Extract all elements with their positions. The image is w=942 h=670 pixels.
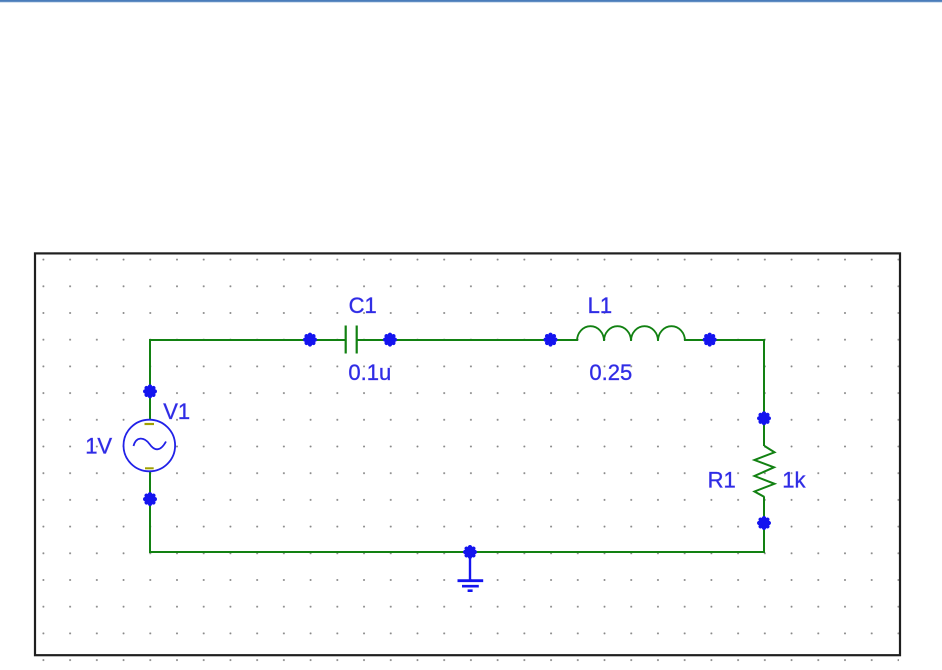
svg-text:L1: L1 <box>588 293 612 318</box>
wire top from V1 node to C1 left plate <box>150 339 346 341</box>
V1 plus terminal mark <box>145 423 155 425</box>
node R1 bottom <box>757 516 771 530</box>
wire right below R1 <box>763 497 765 553</box>
wire left vertical V1 bottom down to bottom rail <box>149 471 151 553</box>
inductor L1 coil <box>577 326 685 341</box>
svg-text:1V: 1V <box>85 434 112 459</box>
V1 sine symbol <box>134 439 167 450</box>
node ground junction <box>463 545 477 559</box>
wire left vertical V1 top <box>149 339 151 429</box>
voltage source V1 circle <box>124 420 176 472</box>
page top blue rule <box>0 0 942 3</box>
node L1 left <box>544 333 558 347</box>
node C1 left <box>303 333 317 347</box>
wire from L1 right end to top-right corner and down to R1 <box>685 340 764 446</box>
svg-text:0.1u: 0.1u <box>348 360 391 385</box>
grid dots <box>37 255 899 663</box>
node R1 top <box>757 411 771 425</box>
node C1 right <box>383 333 397 347</box>
wire bottom rail <box>149 551 765 553</box>
svg-text:0.25: 0.25 <box>589 360 632 385</box>
node L1 right <box>703 333 717 347</box>
svg-text:1k: 1k <box>782 467 806 492</box>
resistor R1 zigzag <box>755 446 775 497</box>
svg-text:V1: V1 <box>163 399 190 424</box>
node V1 bottom <box>143 492 157 506</box>
schematic frame border <box>35 253 900 655</box>
V1 minus terminal mark <box>145 467 154 469</box>
svg-text:C1: C1 <box>349 293 377 318</box>
wire from C1 right plate to L1 left end <box>357 339 577 341</box>
ground symbol <box>458 552 484 591</box>
capacitor C1 plates <box>346 326 357 354</box>
node V1 top <box>143 384 157 398</box>
svg-text:R1: R1 <box>708 467 736 492</box>
